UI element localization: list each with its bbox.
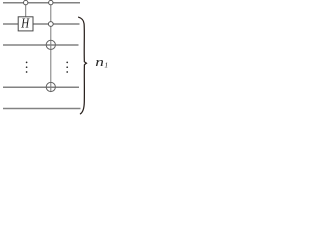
wire q2 (third qubit wire)	[3, 44, 79, 46]
ellipsis dots left	[26, 62, 28, 64]
CNOT target X1 on q2	[46, 40, 55, 49]
brace right curly	[79, 17, 87, 114]
wire control column 2 vertical	[50, 3, 52, 92]
wire q1 (second qubit wire)	[3, 23, 80, 25]
ellipsis dots right	[66, 62, 68, 64]
wire q0 (top qubit wire)	[3, 2, 80, 4]
open control O2 on q0 column 2	[49, 0, 53, 4]
svg-text:1: 1	[104, 61, 108, 70]
open control O3 on q1 column 2	[48, 22, 53, 27]
svg-text:H: H	[20, 16, 30, 31]
open control O1 on q0 column 1	[24, 0, 28, 4]
wire q3 (fourth qubit wire)	[3, 86, 79, 88]
CNOT target X2 on q3	[46, 82, 55, 91]
svg-text:n: n	[95, 55, 104, 69]
wire q4 (bottom qubit wire)	[3, 108, 81, 110]
wire control column 1 vertical	[25, 3, 27, 17]
gate H box	[18, 17, 33, 31]
